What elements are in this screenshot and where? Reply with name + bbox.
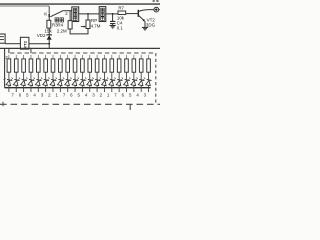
LED VD14 [87,79,93,85]
svg-text:3DG: 3DG [146,23,156,28]
module border dashed bottom [0,103,160,105]
wire left drop to LED bus [4,48,6,87]
resistor R16 [66,59,70,72]
wire top supply rail upper [0,3,160,5]
svg-text:R7: R7 [118,6,124,11]
LED VD4 [13,79,19,85]
wire riser column 5 [37,55,39,59]
label cut text top right [153,0,155,2]
IC U2 box [99,7,106,22]
resistor R17 [73,59,77,72]
wire riser column 1 [8,55,10,59]
node VD2-Y2 junction [48,43,50,45]
wire riser column 11 [81,55,83,59]
wire U1 to U2 [79,13,100,15]
LED VD18 [116,79,122,85]
wire P1 to Y2 [5,43,20,45]
wire column 6 to LED [45,72,47,79]
wire riser column 10 [74,55,76,59]
wire column 14 to LED [103,72,105,79]
wire column 13 to LED [96,72,98,79]
wire riser column 20 [148,55,150,59]
component Y2 box [20,37,29,49]
LED VD13 [79,79,85,85]
node RP junction [87,13,89,15]
pin tick column 4 [30,88,32,92]
svg-text:4.7M: 4.7M [91,24,101,29]
LED VD8 [43,79,49,85]
wire column 20 to LED [148,72,150,79]
resistor R23 [117,59,121,72]
wire riser column 6 [45,55,47,59]
ground under C4 [112,24,114,26]
LED VD6 [28,79,34,85]
pin tick column 9 [67,88,69,92]
wire column 1 to LED [8,72,10,79]
resistor R7 [118,11,126,15]
wire column 5 to LED [37,72,39,79]
wire riser column 9 [67,55,69,59]
wire column 9 to LED [67,72,69,79]
resistor R11 [29,59,33,72]
LED VD21 [138,79,144,85]
resistor R22 [110,59,114,72]
LED VD5 [21,79,27,85]
IC U1 box [72,7,79,22]
LED VD20 [131,79,137,85]
module border left mark [2,102,4,107]
resistor R15 [59,59,63,72]
resistor R19 [88,59,92,72]
transistor VT2 [137,10,139,17]
svg-text:15k: 15k [45,29,53,34]
wire riser column 19 [140,55,142,59]
pin tick column 13 [96,88,98,92]
resistor R18 [81,59,85,72]
LED VD12 [72,79,78,85]
pin tick column 2 [15,88,17,92]
node C4 junction [112,13,114,15]
LED VD16 [101,79,107,85]
wire column 11 to LED [81,72,83,79]
wire riser column 16 [118,55,120,59]
module border dashed right [155,53,157,104]
wire column 16 to LED [118,72,120,79]
pin tick column 12 [89,88,91,92]
LED VD11 [65,79,71,85]
wire column 7 to LED [52,72,54,79]
wire riser column 15 [111,55,113,59]
wire U2 to R7 [106,13,118,15]
resistor R13 [44,59,48,72]
resistor R14 [51,59,55,72]
pin tick column 1 [8,88,10,92]
wire column 8 to LED [59,72,61,79]
LED VD7 [35,79,41,85]
wire riser column 2 [15,55,17,59]
wire riser column 12 [89,55,91,59]
wire column 15 to LED [111,72,113,79]
wire bus stub into module col1 [8,48,10,53]
resistor R12 [37,59,41,72]
svg-text:10k: 10k [117,15,125,20]
wire riser column 17 [126,55,128,59]
wire column 19 to LED [140,72,142,79]
svg-text:R4: R4 [57,22,63,27]
wire column 4 to LED [30,72,32,79]
wire riser column 3 [23,55,25,59]
pin tick column 11 [81,88,83,92]
wire exit stub bottom [129,104,131,110]
label jie-neng (energy save) [55,18,64,22]
pin tick column 19 [140,88,142,92]
wire column 12 to LED [89,72,91,79]
switch K [49,6,63,17]
capacitor C4 [112,14,114,21]
wire column 2 to LED [15,72,17,79]
pin tick column 6 [45,88,47,92]
wire riser column 7 [52,55,54,59]
ground under VT2 emitter [142,27,148,30]
box P1 cut at left edge [0,34,5,43]
wire top supply rail lower [0,5,49,7]
LED VD17 [109,79,115,85]
wire column 18 to LED [133,72,135,79]
wire switch to IC1 pin2 [63,10,72,12]
resistor R9 [14,59,18,72]
pin tick column 15 [111,88,113,92]
wire column 10 to LED [74,72,76,79]
resistor R3 [48,17,50,20]
wire riser column 13 [96,55,98,59]
resistor R25 [132,59,136,72]
resistor R24 [125,59,129,72]
wire riser column 18 [133,55,135,59]
wire bus stub into module col4 [30,48,32,53]
diode VD2 [48,28,50,35]
resistor R4 [69,11,71,21]
wire R4 to RP bottom [70,29,88,34]
module border dashed top [10,52,156,54]
pin tick column 14 [103,88,105,92]
resistor R26 [139,59,143,72]
wire LED cathode bus [5,87,151,89]
wire Y2 to VD2 node [29,43,49,45]
LED VD19 [123,79,129,85]
pin tick column 16 [118,88,120,92]
svg-text:0.1: 0.1 [117,25,124,30]
wire riser column 8 [59,55,61,59]
resistor R21 [103,59,107,72]
svg-text:2.2M: 2.2M [57,28,67,33]
pin tick column 18 [133,88,135,92]
potentiometer RP [87,14,89,20]
svg-text:RP: RP [91,18,97,23]
pin tick column 17 [126,88,128,92]
wire column 3 to LED [23,72,25,79]
pin tick column 8 [59,88,61,92]
wire riser column 4 [30,55,32,59]
connector J1 [154,7,159,12]
resistor R8 [7,59,11,72]
pin tick column 20 [148,88,150,92]
LED VD3 [6,79,12,85]
wire common bus mid [0,47,160,49]
LED VD9 [50,79,56,85]
svg-text:VD2: VD2 [37,33,46,38]
LED VD22 [146,79,152,85]
pin tick column 10 [74,88,76,92]
pin tick column 5 [37,88,39,92]
LED VD15 [94,79,100,85]
pin tick column 7 [52,88,54,92]
pin tick column 3 [23,88,25,92]
resistor R10 [22,59,26,72]
LED VD10 [57,79,63,85]
resistor R27 [147,59,151,72]
wire connector to edge [159,9,160,11]
resistor R20 [95,59,99,72]
svg-text:YT2: YT2 [22,40,27,48]
wire column 17 to LED [126,72,128,79]
wire R7 to VT2 base [126,13,139,15]
wire riser column 14 [103,55,105,59]
